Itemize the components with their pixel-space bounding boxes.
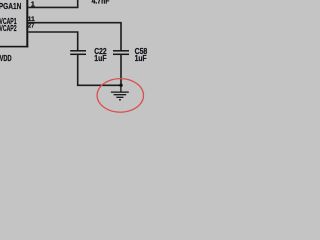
ground GND — [111, 85, 129, 100]
junction dot — [119, 84, 122, 87]
wire C58 bottom to junction — [120, 54, 122, 85]
annotation red ellipse around ground — [97, 79, 143, 113]
capacitor C22 — [70, 51, 86, 55]
svg-text:1uF: 1uF — [135, 54, 147, 63]
svg-text:VDD: VDD — [0, 54, 12, 63]
wire C22 bottom to ground junction — [78, 54, 121, 85]
wire pin 27 to C22 top — [28, 32, 77, 51]
svg-text:4.7nF: 4.7nF — [92, 0, 110, 6]
wire pin 11 to C58 top — [28, 23, 121, 51]
svg-text:PGA1N: PGA1N — [0, 1, 21, 11]
IC U1 bottom edge — [0, 46, 28, 48]
wire pin 1 stub to riser (to 4.7nF cap off-screen) — [28, 0, 77, 7]
IC U1 right border — [26, 0, 28, 47]
svg-text:VCAP2: VCAP2 — [0, 23, 17, 33]
svg-text:1uF: 1uF — [94, 54, 106, 63]
capacitor C58 — [113, 51, 129, 55]
